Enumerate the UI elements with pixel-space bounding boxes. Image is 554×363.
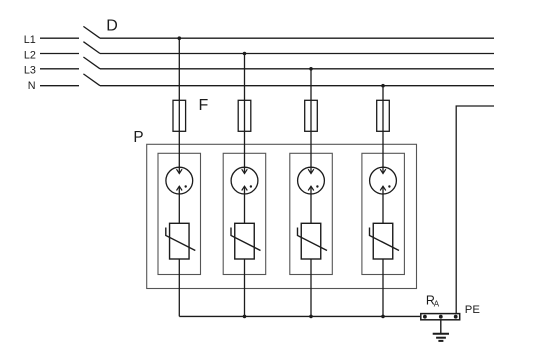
svg-text:L2: L2 — [24, 50, 36, 62]
svg-text:PE: PE — [465, 304, 481, 316]
svg-text:L1: L1 — [24, 34, 36, 46]
svg-text:A: A — [434, 300, 440, 309]
svg-text:N: N — [28, 80, 36, 92]
svg-text:P: P — [133, 129, 143, 146]
svg-text:F: F — [199, 97, 209, 114]
svg-text:D: D — [106, 18, 118, 35]
svg-text:L3: L3 — [24, 64, 36, 76]
